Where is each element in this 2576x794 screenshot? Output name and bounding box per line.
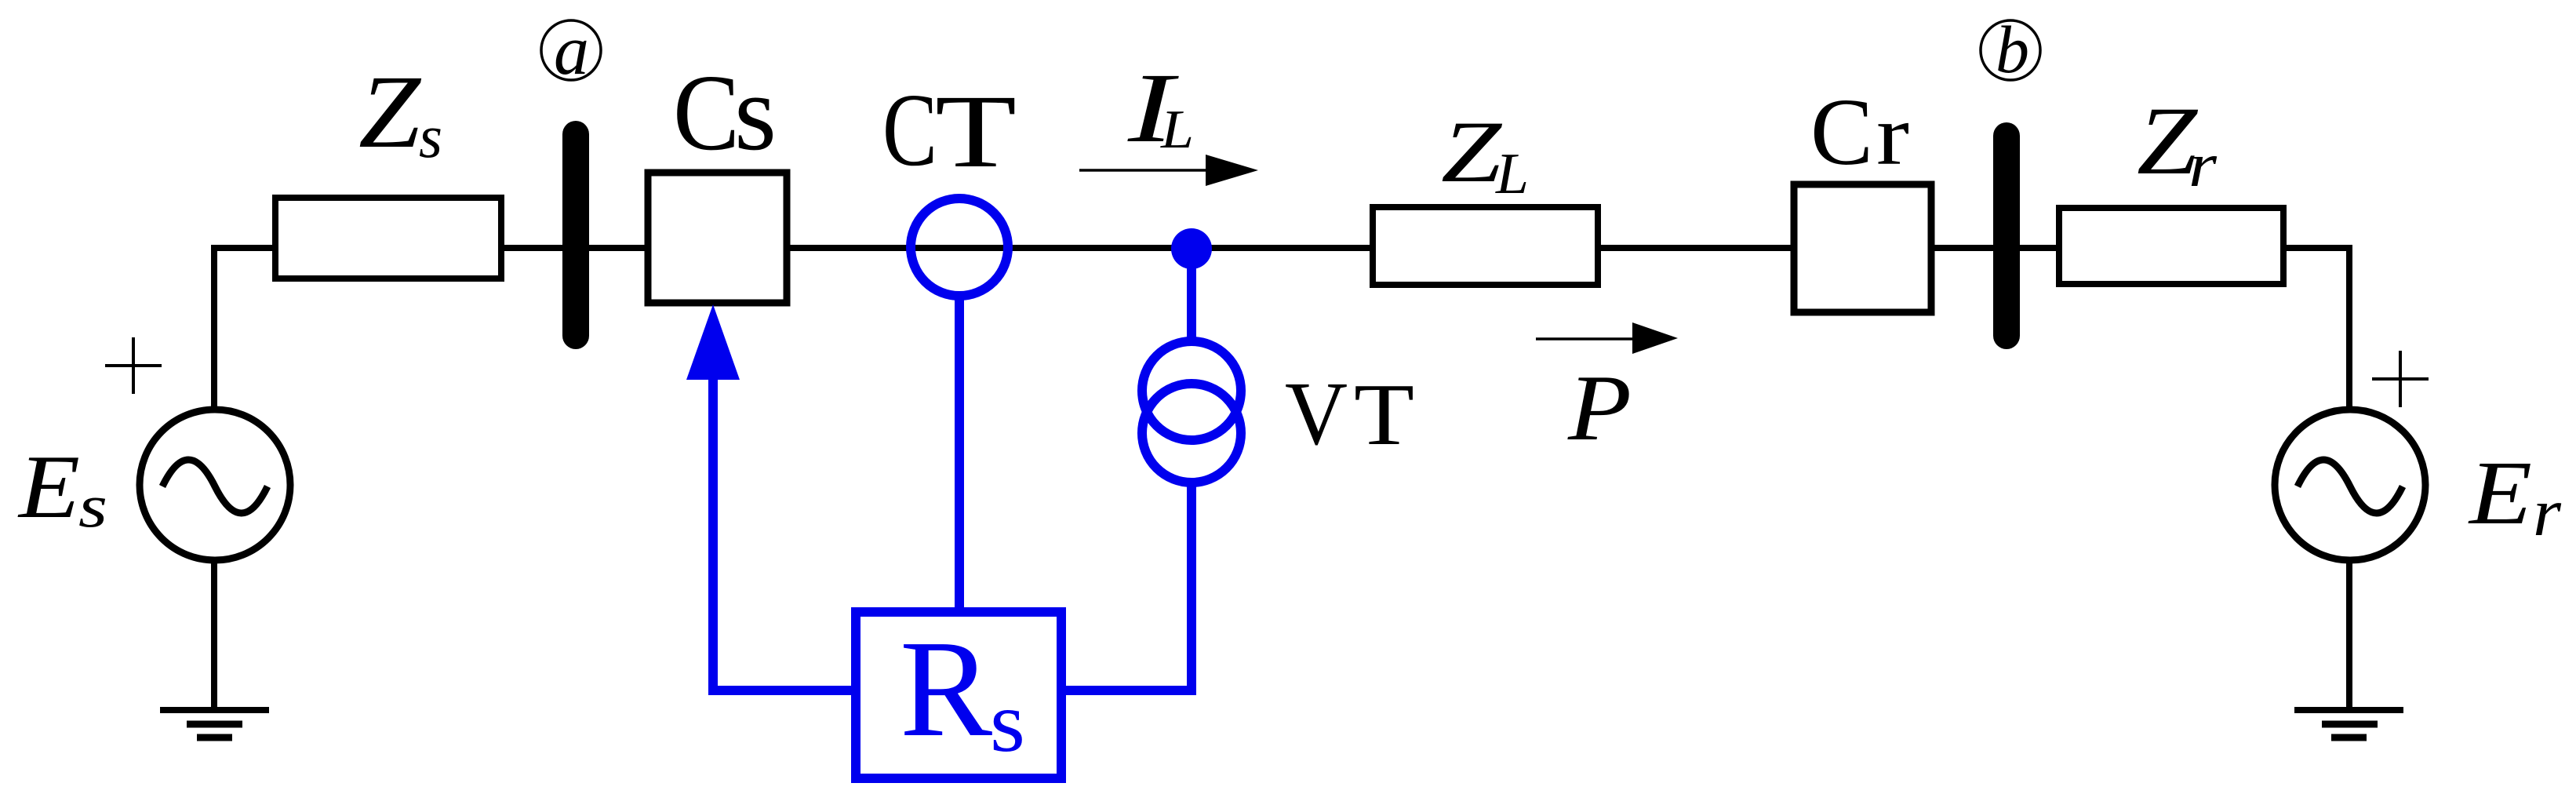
wire Cr to Zr xyxy=(1931,245,2059,251)
svg-text:s: s xyxy=(419,102,442,170)
wire from Es down to ground xyxy=(211,560,217,710)
svg-text:L: L xyxy=(1495,142,1529,206)
VT transformer circle lower xyxy=(1142,384,1241,483)
svg-text:Z: Z xyxy=(358,53,422,169)
arrow P xyxy=(1536,337,1635,341)
node b circled label xyxy=(1981,20,2040,80)
svg-text:T: T xyxy=(1354,366,1414,464)
wire Rs left to arrow xyxy=(713,373,856,690)
svg-text:s: s xyxy=(734,53,777,173)
svg-text:L: L xyxy=(1160,100,1194,160)
sine wave inside Er xyxy=(2298,460,2403,513)
svg-text:E: E xyxy=(17,437,80,537)
bus bar b xyxy=(1993,136,2020,336)
svg-text:r: r xyxy=(1876,87,1909,183)
ground (right) xyxy=(2294,707,2403,713)
CT circle xyxy=(911,198,1008,296)
source Es circle xyxy=(140,410,290,560)
svg-text:T: T xyxy=(935,73,1017,189)
svg-text:C: C xyxy=(1810,79,1873,185)
arrow IL xyxy=(1079,169,1212,172)
trip arrow head into Cs xyxy=(686,304,740,380)
plus sign for Es xyxy=(105,337,162,394)
wire CT down to Rs xyxy=(955,296,964,617)
resistor ZL xyxy=(1373,207,1598,285)
svg-text:r: r xyxy=(2533,474,2562,550)
source Er circle xyxy=(2275,410,2425,560)
wire Cs to ZL xyxy=(787,245,1373,251)
svg-text:V: V xyxy=(1285,364,1348,464)
svg-text:a: a xyxy=(554,12,589,89)
wire from Es up to Zs xyxy=(214,248,275,406)
relay Rs box xyxy=(856,612,1061,778)
ground (left) xyxy=(160,707,269,713)
VT transformer circle upper xyxy=(1142,341,1241,440)
wire Er down to ground xyxy=(2346,560,2352,710)
wire ZL to Cr xyxy=(1598,245,1794,251)
svg-text:R: R xyxy=(900,612,992,766)
svg-text:C: C xyxy=(673,53,740,173)
svg-text:C: C xyxy=(882,71,937,188)
svg-text:b: b xyxy=(1996,12,2029,87)
svg-text:s: s xyxy=(78,472,107,540)
bus bar a xyxy=(562,134,589,336)
plus sign for Er xyxy=(2372,351,2429,407)
node junction dot xyxy=(1171,228,1212,269)
resistor Zs xyxy=(275,198,501,279)
wire Zr to Er xyxy=(2283,248,2349,406)
sine wave inside Es xyxy=(162,460,267,513)
resistor Zr xyxy=(2059,208,2283,284)
breaker Cr box xyxy=(1794,184,1931,312)
svg-text:E: E xyxy=(2468,443,2532,544)
svg-text:Z: Z xyxy=(1441,104,1503,201)
svg-text:s: s xyxy=(990,674,1025,770)
svg-text:P: P xyxy=(1567,355,1632,460)
node a circled label xyxy=(541,20,601,80)
wire node down to VT xyxy=(1187,249,1196,345)
wire Zs to Cs xyxy=(501,245,648,251)
svg-text:r: r xyxy=(2189,131,2218,200)
wire VT down and left to Rs xyxy=(1061,483,1192,690)
breaker Cs box xyxy=(648,173,787,303)
